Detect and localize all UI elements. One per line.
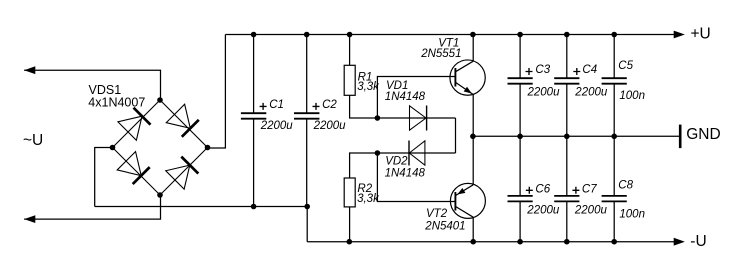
wire R1 bottom to VD1 anode line [350, 95, 456, 118]
wire C5 leads [613, 35, 615, 137]
wire VT2 base [377, 153, 455, 202]
wire negative line under C1 C2 [95, 207, 308, 242]
transistor VT2 2N5401 PNP [450, 183, 485, 218]
node R2 / VD2 / VT2 base [375, 150, 381, 156]
node top rail / C4 [564, 32, 570, 38]
terminal arrow -U [674, 238, 685, 246]
GND terminal bar [679, 125, 682, 149]
svg-text:+U: +U [691, 26, 711, 43]
polarity + of C6 [526, 187, 533, 194]
polarity + of C1 [260, 103, 267, 110]
diode VDS1 lower-right (anode bottom node, cathode right node) [166, 156, 199, 189]
polarity + of C3 [526, 68, 533, 75]
wire C2 leads [306, 35, 308, 207]
capacitor C2 plates [294, 113, 319, 119]
polarity + of C2 [313, 103, 320, 110]
svg-text:C2: C2 [322, 99, 337, 111]
svg-text:2200u: 2200u [313, 120, 347, 132]
node GND rail / C5 C8 [611, 134, 617, 140]
svg-text:3,3k: 3,3k [357, 81, 380, 93]
node top rail / R1 [347, 32, 353, 38]
wire C6 leads [519, 136, 521, 241]
resistor R1 3,3k body [344, 65, 355, 95]
svg-text:C5: C5 [618, 60, 633, 72]
node bridge right [205, 145, 211, 151]
node top rail / C1 [251, 32, 257, 38]
diode VD2 1N4148 (anode right, cathode left) [409, 141, 425, 166]
svg-text:C7: C7 [582, 183, 597, 195]
wire C1 leads [253, 35, 255, 207]
wire VT1 emitter to GND rail [472, 94, 474, 136]
svg-text:2N5551: 2N5551 [420, 48, 461, 60]
transistor VT1 2N5551 NPN [450, 60, 485, 95]
svg-text:C8: C8 [618, 179, 633, 191]
svg-text:2200u: 2200u [574, 86, 608, 98]
wire C3 leads [519, 35, 521, 137]
svg-text:4x1N4007: 4x1N4007 [88, 96, 145, 110]
terminal arrow AC top left [24, 66, 35, 74]
svg-text:2200u: 2200u [526, 205, 560, 217]
node bridge bottom [157, 192, 163, 198]
wire R1 top lead [349, 35, 351, 66]
wire from bridge right node up to top rail [208, 35, 226, 149]
wire VT1 collector to top rail [472, 35, 474, 62]
wire VT2 emitter to GND rail [472, 136, 474, 184]
svg-text:VD2: VD2 [385, 155, 408, 167]
node negative line / C2 [304, 204, 310, 210]
wire VT1 base [377, 77, 455, 119]
node bottom rail / C8 [611, 239, 617, 245]
node GND rail / emitters [470, 134, 476, 140]
wire from bridge left node down to negative line [95, 148, 113, 207]
svg-text:2200u: 2200u [527, 86, 561, 98]
node GND rail / C4 C7 [564, 134, 570, 140]
svg-text:VT2: VT2 [426, 208, 448, 220]
diode VDS1 upper-left (anode left node, cathode top node) [118, 107, 151, 140]
resistor R2 3,3k body [344, 178, 355, 207]
node top rail / C3 [517, 32, 523, 38]
svg-text:100n: 100n [619, 90, 645, 102]
capacitor C6 plates [508, 196, 533, 202]
svg-text:1N4148: 1N4148 [385, 91, 426, 103]
capacitor C1 plates [241, 113, 266, 119]
diode VD1 1N4148 (anode left, cathode right) [410, 106, 427, 131]
node bottom rail / VT2 collector [470, 239, 476, 245]
polarity + of C7 [572, 187, 579, 194]
svg-text:100n: 100n [619, 208, 645, 220]
wire top rail +U [225, 34, 677, 36]
node negative line / C1 [251, 204, 257, 210]
node bridge left [110, 145, 116, 151]
svg-text:C3: C3 [535, 64, 550, 76]
terminal arrow AC bottom left [24, 215, 35, 223]
wire GND rail [473, 135, 679, 137]
svg-text:2N5401: 2N5401 [424, 221, 465, 233]
node bottom rail / C6 [517, 239, 523, 245]
svg-text:GND: GND [686, 126, 720, 143]
node R1 / VD1 / VT1 base [375, 115, 381, 121]
svg-text:3,3k: 3,3k [357, 193, 380, 205]
wire VD1 cathode down to VD2 anode [455, 118, 457, 153]
wire C7 leads [566, 136, 568, 241]
capacitor C7 plates [554, 196, 579, 202]
svg-text:C4: C4 [582, 64, 597, 76]
svg-text:C1: C1 [269, 99, 284, 111]
wire AC input bottom: arrow to bridge bottom node [24, 195, 160, 219]
terminal arrow +U [674, 31, 685, 39]
svg-text:2200u: 2200u [574, 205, 608, 217]
wire AC input top: arrow to bridge top node [24, 70, 160, 100]
node bottom rail / R2 [347, 239, 353, 245]
capacitor C4 plates [554, 78, 579, 84]
bridge rectifier VDS1 diamond [113, 100, 208, 195]
wire VT2 collector to bottom rail [472, 217, 474, 241]
capacitor C8 plates [602, 196, 627, 202]
capacitor C5 plates [602, 78, 627, 84]
wire VD2 line to R2 top [350, 153, 456, 178]
node top rail / C2 [304, 32, 310, 38]
svg-text:1N4148: 1N4148 [385, 167, 426, 179]
node top rail / VT1 collector [470, 32, 476, 38]
node top rail / C5 [611, 32, 617, 38]
svg-text:C6: C6 [535, 183, 550, 195]
node GND rail / C3 C6 [517, 134, 523, 140]
diode VDS1 lower-left (anode left node, cathode bottom node) [117, 152, 150, 185]
svg-text:2200u: 2200u [260, 120, 294, 132]
wire R2 bottom lead [349, 207, 351, 242]
capacitor C3 plates [508, 78, 533, 84]
polarity + of C4 [573, 68, 580, 75]
wire bottom rail -U [307, 241, 677, 243]
svg-text:-U: -U [690, 233, 706, 250]
node bridge top [157, 97, 163, 103]
diode VDS1 upper-right (anode top node, cathode right node) [166, 104, 199, 137]
wire C8 leads [613, 136, 615, 241]
node bottom rail / C7 [564, 239, 570, 245]
wire C4 leads [566, 35, 568, 137]
svg-text:~U: ~U [23, 132, 43, 149]
